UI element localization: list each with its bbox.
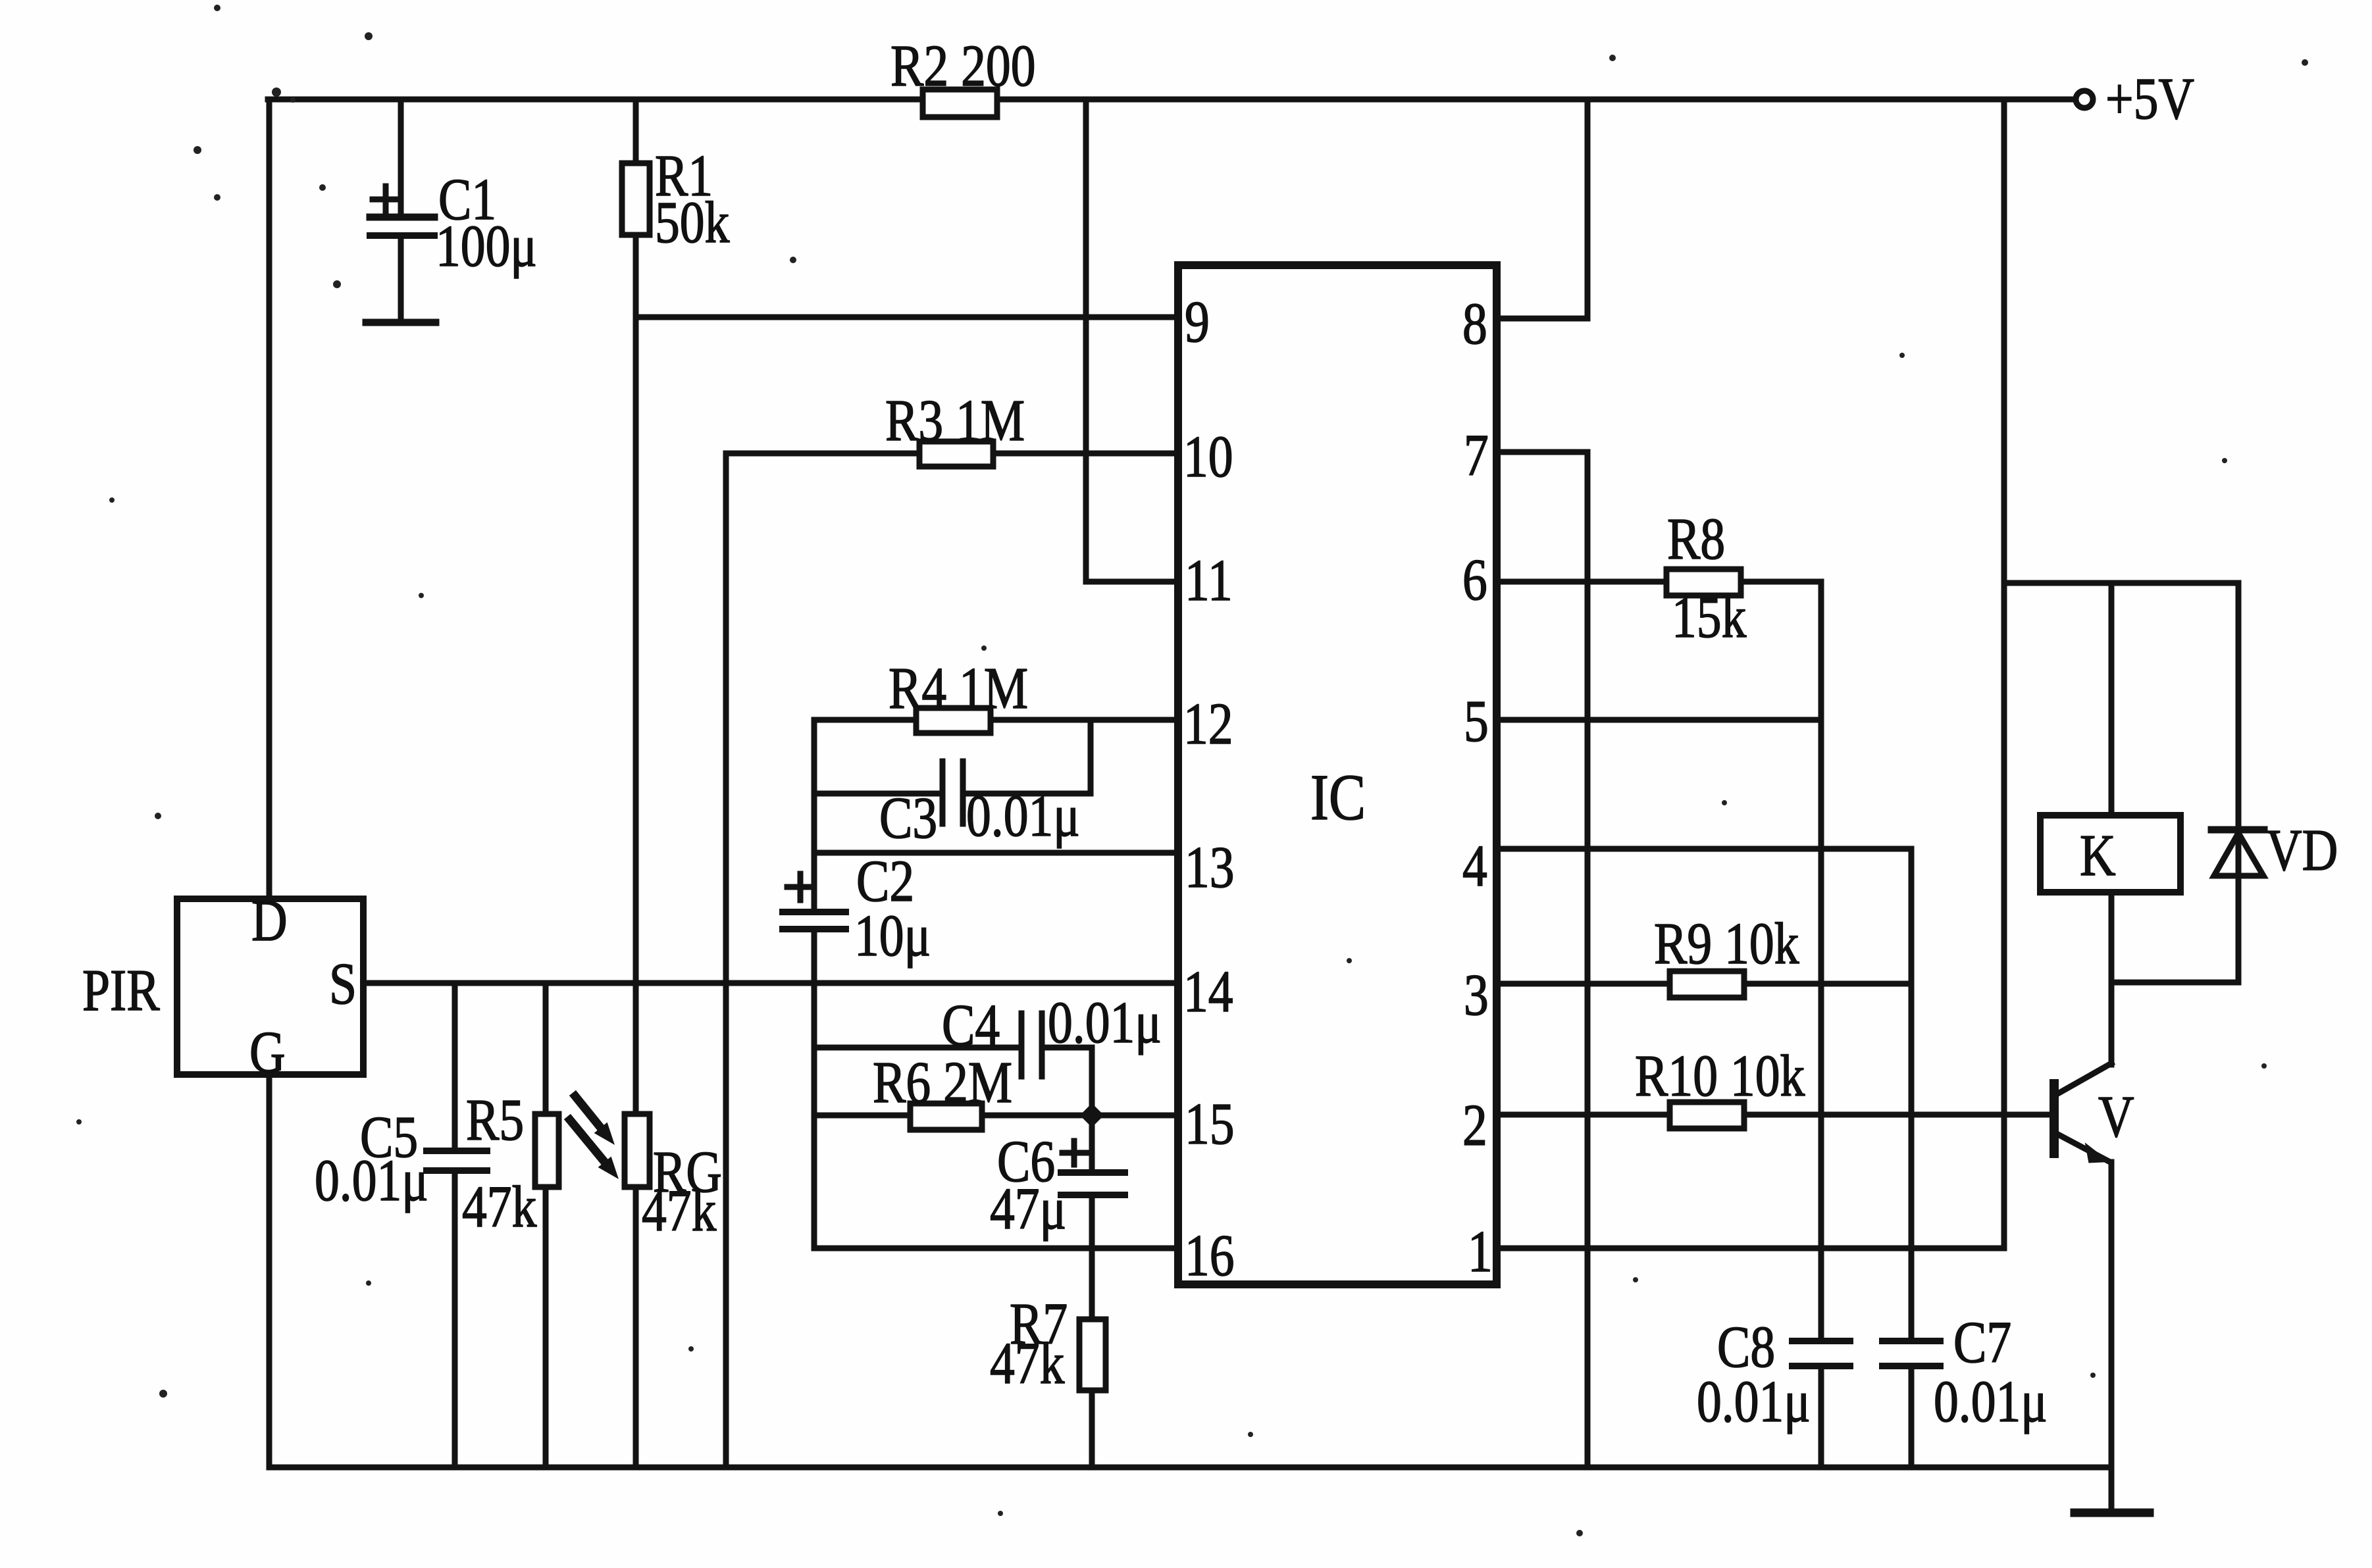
capacitor C7 [1882,1338,1940,1344]
svg-text:10μ: 10μ [854,903,931,969]
svg-text:C3: C3 [879,785,937,851]
wire pin8 horizontal [1497,316,1587,322]
wire left rail lower (PIR G to ground rail) [267,1075,272,1467]
PIR box [177,899,363,1075]
wire bottom ground rail [269,1465,2111,1471]
svg-text:12: 12 [1183,691,1233,757]
svg-text:R9 10k: R9 10k [1654,911,1799,976]
svg-text:0.01μ: 0.01μ [966,783,1080,849]
wire pin3 horizontal with R9 [1497,981,1911,987]
wire pin4 horizontal [1497,846,1911,852]
svg-text:15: 15 [1185,1091,1235,1157]
svg-text:8: 8 [1462,291,1487,357]
wire C-chain left vertical upper [812,720,817,912]
capacitor C8 [1792,1338,1850,1344]
svg-text:1: 1 [1468,1219,1493,1284]
wire pin16 horizontal [814,1246,1178,1252]
resistor R4 [916,708,991,733]
svg-text:47k: 47k [642,1178,717,1244]
svg-text:5: 5 [1464,688,1489,754]
node +5V terminal [2076,91,2093,108]
wire pin5 horizontal [1497,717,1821,723]
photoresistor RG [625,1114,650,1187]
wire left rail upper [267,99,272,899]
wire top +5V rail [268,97,2075,103]
svg-text:IC: IC [1310,761,1366,833]
svg-text:0.01μ: 0.01μ [1048,990,1162,1055]
svg-text:3: 3 [1464,962,1489,1028]
wire vertical rail to pin11 [1083,99,1089,582]
svg-text:R10 10k: R10 10k [1635,1043,1805,1109]
svg-text:13: 13 [1185,834,1235,900]
wire pin7 horizontal [1497,449,1587,455]
resistor R1 [633,99,639,163]
svg-text:47μ: 47μ [990,1176,1066,1242]
svg-text:R2 200: R2 200 [890,33,1036,99]
capacitor C6 [1089,1115,1095,1173]
capacitor C2 [783,909,846,915]
resistor R10 [1670,1102,1744,1128]
wire pin12 horizontal with R4 [814,717,1178,723]
svg-text:47k: 47k [462,1174,537,1240]
wire relay top stub [2109,583,2115,815]
svg-text:C7: C7 [1953,1309,2011,1375]
svg-text:2: 2 [1462,1092,1487,1158]
svg-text:V: V [2098,1084,2134,1150]
wire pin7 vertical to ground rail [1585,452,1591,1467]
svg-text:G: G [249,1019,286,1085]
wire pin2 horizontal with R10 [1497,1112,2050,1118]
wire pin13 horizontal [814,850,1178,856]
svg-text:16: 16 [1185,1223,1235,1288]
wire R3 left vertical to ground rail [723,453,729,1467]
svg-text:K: K [2080,822,2116,888]
svg-text:4: 4 [1462,833,1487,899]
svg-text:6: 6 [1462,547,1487,613]
wire pin1 horizontal [1497,1246,2004,1252]
wire pin10 horizontal with R3 [726,451,1178,457]
capacitor C5 [452,983,458,1151]
svg-text:10: 10 [1183,424,1233,490]
IC box [1178,265,1497,1284]
wire pin15 horizontal with R6 [814,1113,1178,1119]
relay K [2040,815,2180,892]
capacitor C1 [398,99,404,217]
svg-text:+5V: +5V [2105,66,2194,132]
capacitor C4 [814,1045,1020,1051]
resistor R6 [910,1103,982,1130]
transistor V [2050,1084,2059,1153]
svg-text:0.01μ: 0.01μ [315,1148,428,1213]
wire pin9 horizontal [636,315,1178,320]
wire emitter vertical [2109,1162,2115,1467]
svg-text:14: 14 [1183,959,1233,1024]
svg-text:50k: 50k [655,190,730,255]
resistor R9 [1670,971,1744,998]
svg-text:S: S [329,951,357,1017]
svg-text:100μ: 100μ [436,213,537,279]
svg-text:R6 2M: R6 2M [873,1050,1012,1115]
svg-text:R5: R5 [466,1087,524,1153]
svg-text:0.01μ: 0.01μ [1697,1369,1811,1434]
resistor R5 [543,983,549,1114]
resistor R8 [1666,569,1741,595]
diode VD [2236,583,2242,982]
wire pin6 horizontal with R8 [1497,579,1821,585]
svg-text:15k: 15k [1672,584,1747,650]
wire pin1 vertical to rail [2001,99,2007,1248]
wire R8 right vertical [1818,582,1824,1341]
wire branch to relay and diode [2004,580,2238,586]
wire C-chain left vertical lower [812,929,817,1248]
svg-text:9: 9 [1185,289,1210,355]
wire relay bottom to collector [2109,892,2115,1065]
node junction pin15/C4/C6 [1080,1103,1104,1128]
wire pin4 vertical [1909,849,1915,1341]
svg-text:R3 1M: R3 1M [885,388,1025,453]
RG light arrows [570,1096,607,1165]
wire pin11 horizontal [1086,579,1178,585]
svg-text:11: 11 [1185,547,1233,613]
svg-text:7: 7 [1464,422,1489,488]
svg-text:47k: 47k [990,1330,1065,1396]
capacitor C3 [814,791,941,797]
resistor R7 [1079,1319,1106,1390]
resistor R3 [919,442,993,467]
resistor R2 [923,89,997,117]
svg-text:VD: VD [2266,817,2338,883]
svg-text:C4: C4 [942,992,1000,1058]
svg-text:PIR: PIR [82,957,160,1023]
svg-text:D: D [251,888,288,953]
svg-text:0.01μ: 0.01μ [1934,1369,2048,1434]
svg-text:R8: R8 [1667,506,1725,572]
wire pin14 / PIR S horizontal [363,980,1178,986]
wire pin8 vertical to rail [1585,99,1591,318]
ground [2109,1467,2115,1513]
svg-text:R4 1M: R4 1M [889,655,1028,721]
